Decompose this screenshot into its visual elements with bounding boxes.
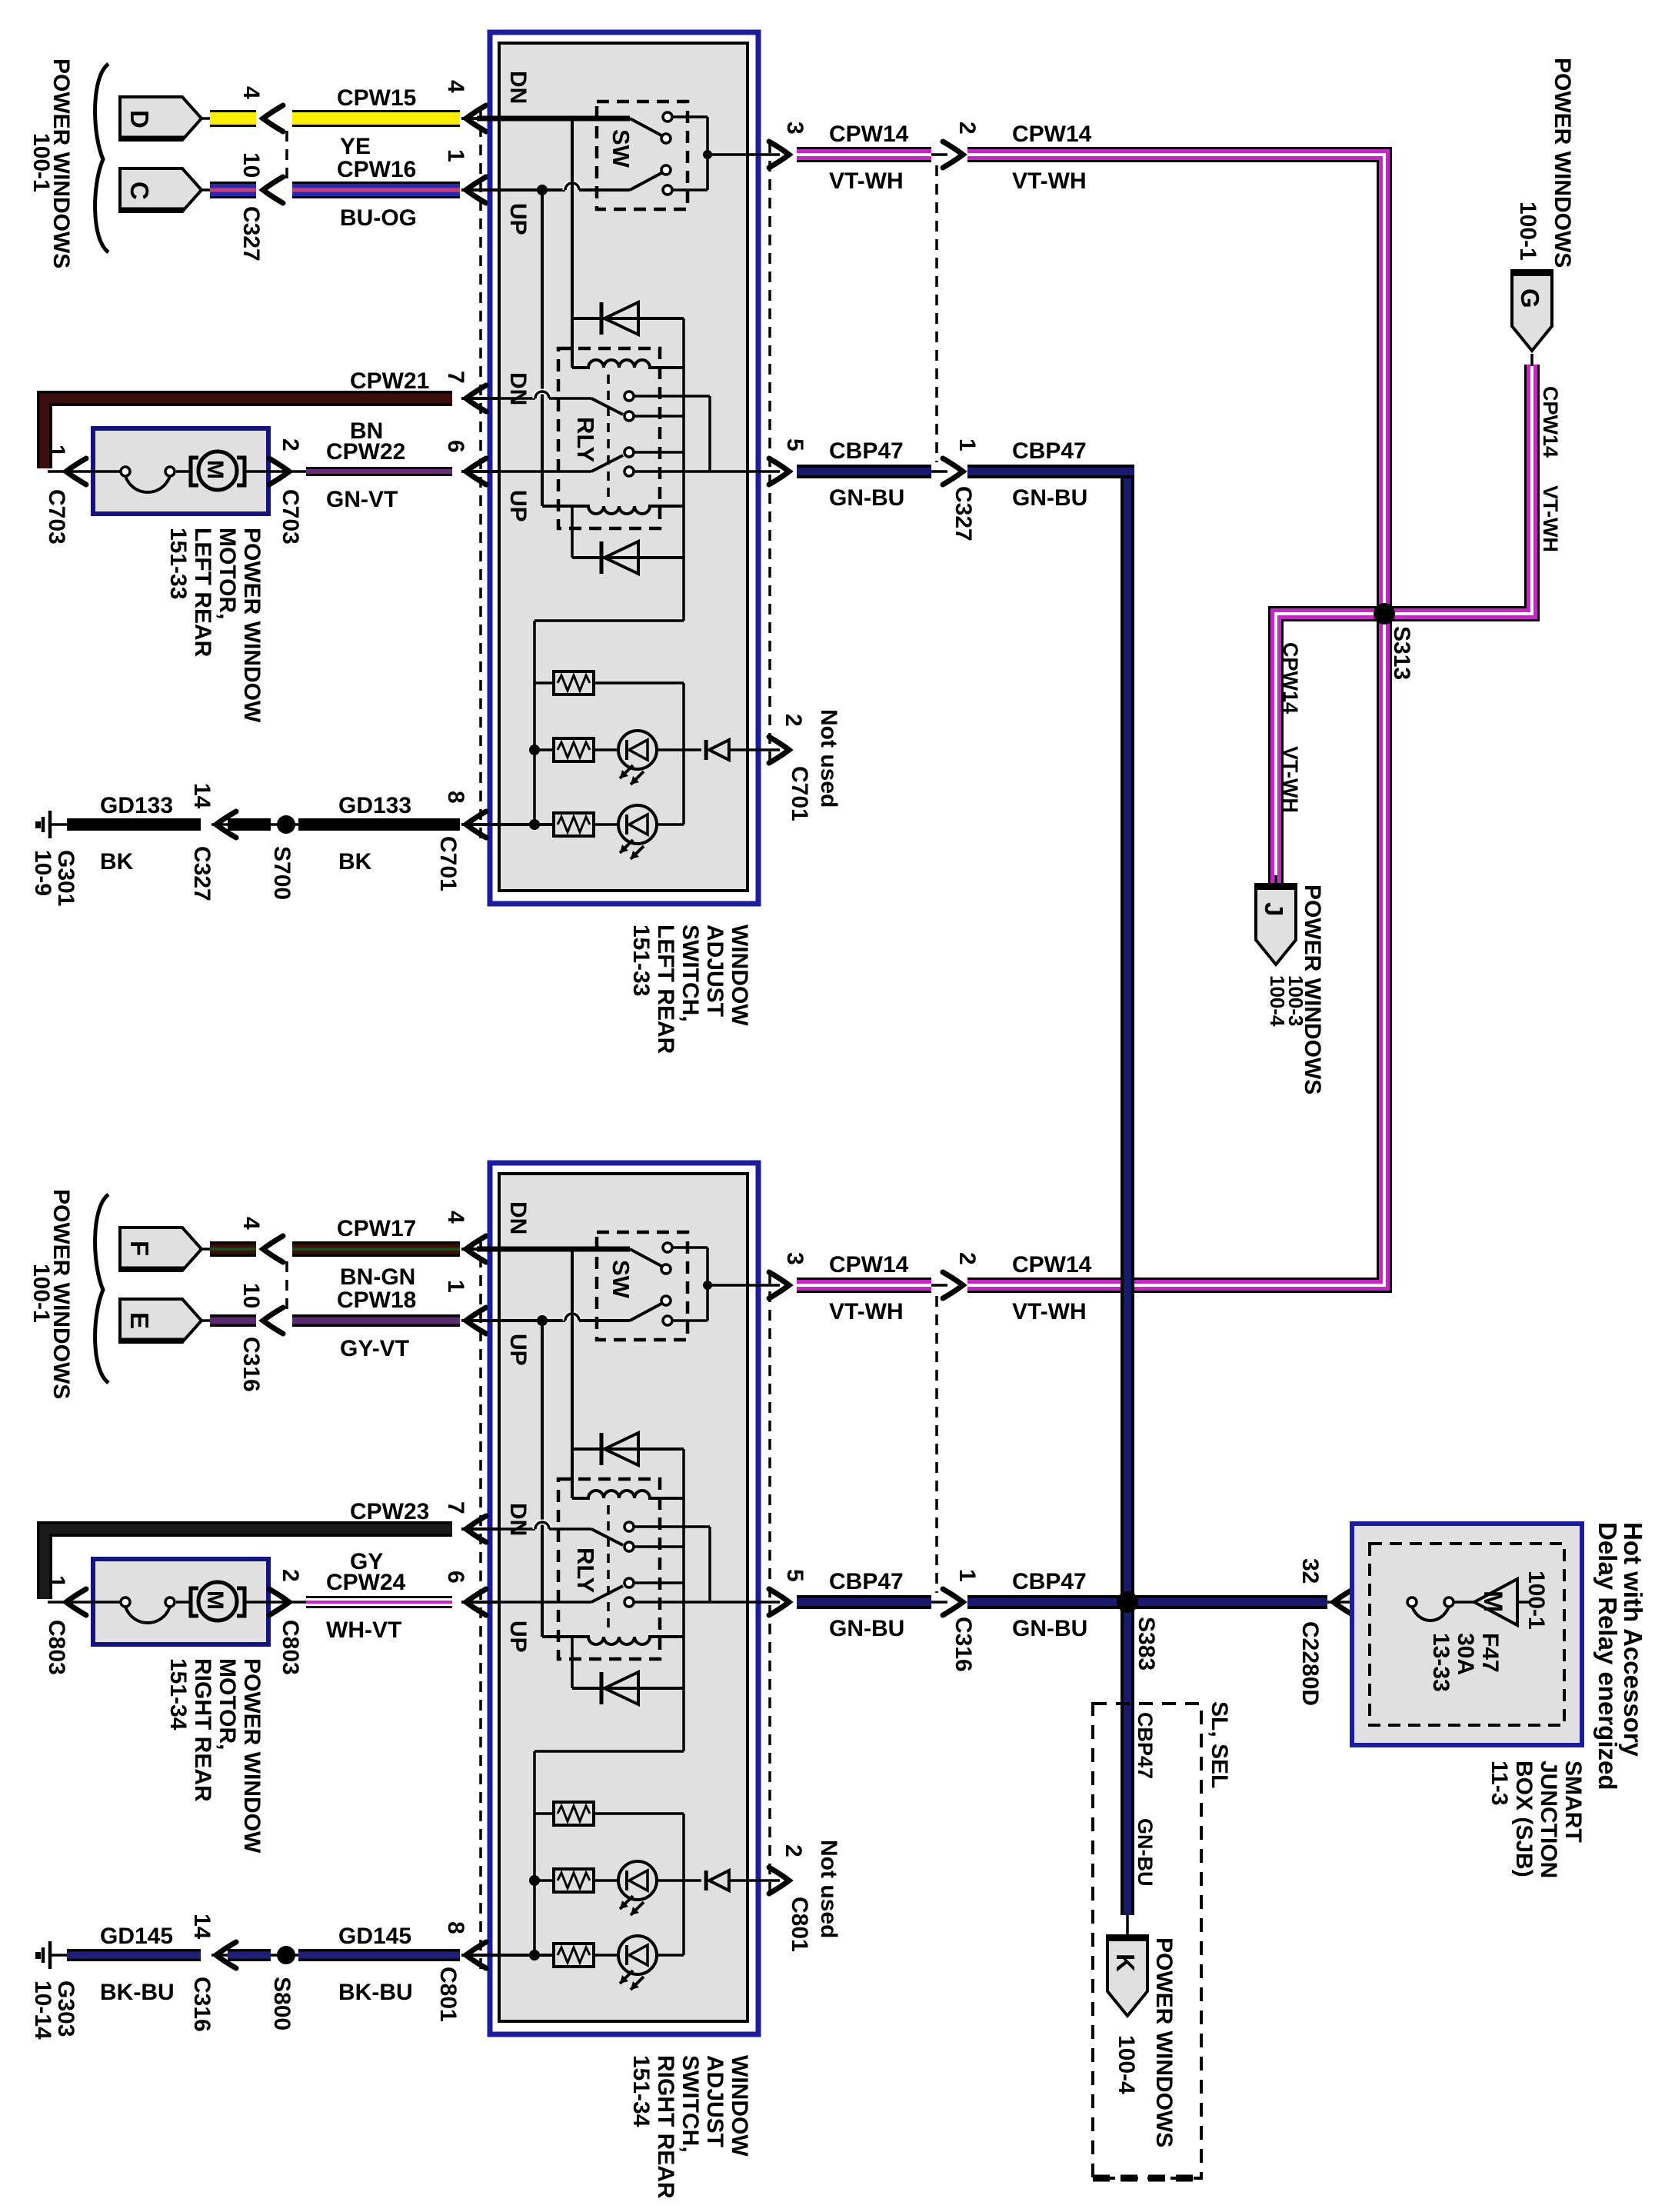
svg-text:GN-VT: GN-VT bbox=[326, 487, 398, 512]
switch SW contact UP bbox=[630, 173, 661, 190]
SJB inner dashed box bbox=[1370, 1544, 1564, 1725]
svg-text:CBP47: CBP47 bbox=[829, 438, 904, 464]
resistor R1 bbox=[534, 681, 554, 685]
svg-text:RIGHT REAR: RIGHT REAR bbox=[653, 2055, 678, 2199]
svg-text:UP: UP bbox=[505, 1621, 531, 1653]
svg-text:100-1: 100-1 bbox=[28, 1264, 54, 1323]
svg-text:CBP47: CBP47 bbox=[829, 1569, 904, 1594]
relay coil upper bbox=[572, 360, 684, 368]
wire pin 7 row bbox=[477, 397, 535, 400]
svg-text:ADJUST: ADJUST bbox=[702, 924, 728, 1017]
wire stub from F bbox=[201, 1248, 212, 1251]
arrow pin 6 at switch box bbox=[466, 1589, 486, 1615]
svg-text:BN-GN: BN-GN bbox=[340, 1264, 415, 1290]
switch SW contact DN bbox=[630, 1249, 661, 1266]
diode D2 relay lower bbox=[572, 556, 684, 559]
svg-text:LEFT REAR: LEFT REAR bbox=[190, 528, 215, 658]
connector E bbox=[120, 1299, 201, 1342]
wire GD133 short segment bbox=[228, 818, 271, 831]
arrow motor pin 1 bbox=[66, 458, 86, 485]
wire DN feed bbox=[477, 1247, 630, 1252]
resistor R2 bbox=[534, 1879, 554, 1882]
svg-text:RIGHT REAR: RIGHT REAR bbox=[190, 1658, 215, 1802]
wire pin 3 out bbox=[744, 1284, 780, 1287]
svg-text:GD133: GD133 bbox=[338, 793, 411, 818]
connector J bbox=[1274, 875, 1277, 886]
arrow pin 5 out bbox=[769, 1589, 789, 1615]
wire lamp feed bbox=[682, 558, 685, 621]
svg-text:CBP47: CBP47 bbox=[1134, 1712, 1157, 1779]
svg-text:4: 4 bbox=[238, 1217, 264, 1230]
svg-text:E: E bbox=[125, 1312, 154, 1329]
wire vertical relay link bbox=[682, 681, 685, 685]
svg-text:10-9: 10-9 bbox=[30, 850, 55, 896]
wire UP feed bbox=[477, 1319, 538, 1322]
svg-text:C703: C703 bbox=[44, 489, 69, 545]
svg-text:6: 6 bbox=[443, 1571, 468, 1584]
connector C316 dashed line right bbox=[935, 1296, 938, 1593]
fuse F47 element bbox=[1407, 1597, 1417, 1607]
arrow CPW14 crossing bbox=[943, 1272, 963, 1298]
relay contact DN bbox=[591, 1529, 623, 1545]
svg-text:10-14: 10-14 bbox=[30, 1980, 55, 2040]
svg-text:7: 7 bbox=[443, 1501, 468, 1514]
svg-text:C701: C701 bbox=[435, 836, 461, 891]
connector D bbox=[120, 97, 201, 140]
svg-text:100-1: 100-1 bbox=[1515, 202, 1540, 261]
svg-text:BU-OG: BU-OG bbox=[340, 205, 417, 231]
svg-text:C703: C703 bbox=[278, 489, 303, 545]
svg-text:CPW24: CPW24 bbox=[326, 1570, 406, 1595]
junction lamp row3 bbox=[529, 819, 540, 830]
wire CPW14 VT-WH segment A bbox=[797, 1278, 931, 1293]
connector C327 dashed line bbox=[285, 131, 288, 179]
svg-text:32: 32 bbox=[1297, 1558, 1323, 1584]
relay coil lower bbox=[542, 506, 684, 514]
wire CPW14 VT-WH trunk bbox=[967, 155, 1384, 1285]
diode D1 relay upper bbox=[572, 1447, 684, 1451]
svg-text:D: D bbox=[125, 110, 154, 128]
wire stub from D bbox=[201, 117, 212, 120]
arrow CBP47 pin 32 bbox=[1334, 1589, 1354, 1615]
switch box window adjust switch left rear inner bbox=[499, 43, 748, 891]
svg-text:SW: SW bbox=[608, 1260, 634, 1299]
arrow pin 7 at switch box bbox=[466, 385, 486, 411]
svg-text:2: 2 bbox=[278, 438, 303, 451]
junction splice S700 bbox=[277, 815, 295, 834]
LED L1 bbox=[618, 731, 657, 769]
wire GD133 BK segment 2 bbox=[298, 818, 460, 831]
svg-text:1: 1 bbox=[954, 438, 980, 451]
svg-text:4: 4 bbox=[443, 1211, 468, 1224]
connector F bbox=[120, 1228, 201, 1271]
brace top power-windows bbox=[95, 64, 108, 252]
svg-text:UP: UP bbox=[505, 490, 531, 522]
svg-text:CPW15: CPW15 bbox=[337, 85, 416, 111]
svg-text:DN: DN bbox=[505, 372, 531, 405]
arrow GD133 pin 14 bbox=[216, 811, 236, 838]
svg-text:VT-WH: VT-WH bbox=[1279, 746, 1302, 813]
svg-text:CPW14: CPW14 bbox=[829, 122, 909, 147]
wire motor pin 1 bbox=[48, 1601, 93, 1604]
wire GD133 BK segment 1 bbox=[67, 818, 201, 831]
svg-text:GN-BU: GN-BU bbox=[1012, 485, 1087, 511]
svg-text:10: 10 bbox=[238, 1283, 264, 1308]
svg-text:C2280D: C2280D bbox=[1297, 1621, 1323, 1706]
svg-text:BK: BK bbox=[338, 849, 372, 874]
connector C801 dashed line left of box bbox=[479, 1238, 482, 1970]
svg-text:CPW21: CPW21 bbox=[350, 368, 429, 394]
wire vertical relay link bbox=[682, 1812, 685, 1815]
svg-text:CPW17: CPW17 bbox=[337, 1216, 416, 1241]
wire relay contact links bbox=[634, 395, 710, 398]
svg-text:8: 8 bbox=[443, 791, 468, 804]
svg-text:UP: UP bbox=[505, 1334, 531, 1366]
relay RLY window adjust switch left rear dashed box bbox=[558, 348, 660, 528]
arrow CPW15 pin 4 left bbox=[263, 105, 283, 132]
junction splice S800 bbox=[277, 1946, 295, 1964]
svg-text:JUNCTION: JUNCTION bbox=[1536, 1761, 1561, 1878]
arrow motor pin 2 bbox=[269, 1589, 289, 1615]
svg-text:DN: DN bbox=[505, 1201, 531, 1234]
resistor R3 bbox=[499, 1954, 554, 1957]
svg-text:14: 14 bbox=[189, 783, 215, 809]
svg-text:MOTOR,: MOTOR, bbox=[215, 528, 240, 619]
svg-text:LEFT REAR: LEFT REAR bbox=[653, 924, 678, 1054]
wire vertical DN to relay coil bbox=[571, 1249, 574, 1498]
diode D3 not-used bbox=[704, 1871, 708, 1891]
svg-text:GN-BU: GN-BU bbox=[1134, 1818, 1157, 1887]
arrow pin 2 not used bbox=[769, 737, 789, 763]
svg-text:SL, SEL: SL, SEL bbox=[1207, 1701, 1232, 1788]
svg-text:GN-BU: GN-BU bbox=[829, 485, 904, 511]
wire vertical UP to relay bbox=[541, 190, 544, 506]
wire CPW21 BN bbox=[45, 398, 452, 468]
wire CPW23 GY bbox=[45, 1529, 452, 1599]
wire LED L1 out bbox=[657, 1879, 701, 1882]
svg-text:100-1: 100-1 bbox=[28, 133, 54, 192]
svg-text:CPW23: CPW23 bbox=[350, 1499, 429, 1524]
svg-text:SWITCH,: SWITCH, bbox=[678, 924, 703, 1022]
switch SW contact UP bbox=[630, 1304, 661, 1321]
wire CPW14 VT-WH segment A bbox=[797, 147, 931, 162]
svg-text:UP: UP bbox=[505, 203, 531, 235]
svg-text:J: J bbox=[1260, 902, 1288, 916]
svg-text:2: 2 bbox=[278, 1569, 303, 1582]
motor M power window motor right rear bbox=[191, 1588, 198, 1616]
svg-text:POWER WINDOW: POWER WINDOW bbox=[239, 1658, 265, 1854]
wire CPW14 S313 to J drop bbox=[1276, 614, 1392, 883]
motor power window motor right rear box bbox=[93, 1559, 268, 1644]
svg-text:C327: C327 bbox=[951, 486, 976, 541]
svg-text:WH-VT: WH-VT bbox=[326, 1617, 401, 1643]
svg-text:C801: C801 bbox=[787, 1897, 812, 1952]
junction splice S383 bbox=[1117, 1591, 1138, 1613]
wire pin 3 out bbox=[744, 153, 780, 156]
brace bottom power-windows bbox=[95, 1194, 108, 1383]
wire GD145 BK-BU segment 2 bbox=[298, 1949, 460, 1961]
wire UP feed bbox=[477, 188, 538, 192]
arrow pin 4 at switch box bbox=[466, 1236, 486, 1262]
wire GD145 BK-BU segment 1 bbox=[67, 1949, 201, 1961]
svg-text:7: 7 bbox=[443, 371, 468, 384]
svg-text:C803: C803 bbox=[278, 1620, 303, 1675]
arrow pin 3 out bbox=[769, 142, 789, 168]
diode D2 relay lower bbox=[572, 1687, 684, 1690]
relay armature dashed link bbox=[607, 1505, 610, 1631]
wire CPW17 BN-GN bbox=[292, 1241, 460, 1257]
svg-text:C327: C327 bbox=[189, 846, 215, 901]
svg-text:S800: S800 bbox=[269, 1977, 295, 2030]
svg-text:MOTOR,: MOTOR, bbox=[215, 1658, 240, 1750]
arrow pin 6 at switch box bbox=[466, 458, 486, 485]
wire LED L1 out bbox=[657, 748, 701, 751]
switch box window adjust switch right rear outer bbox=[490, 1163, 758, 2034]
wire lamp feed bbox=[682, 1688, 685, 1751]
svg-text:CPW16: CPW16 bbox=[337, 157, 416, 182]
svg-text:3: 3 bbox=[782, 1252, 808, 1265]
wire SW outputs bbox=[672, 1246, 708, 1249]
svg-text:VT-WH: VT-WH bbox=[829, 1299, 904, 1324]
svg-text:VT-WH: VT-WH bbox=[1539, 485, 1562, 552]
wire pin 7 row bbox=[477, 1527, 535, 1531]
junction UP feed to relay bbox=[537, 1315, 548, 1326]
svg-text:GN-BU: GN-BU bbox=[1012, 1616, 1087, 1641]
arrow motor pin 1 bbox=[66, 1589, 86, 1615]
circuit breaker in motor bbox=[93, 470, 120, 473]
svg-text:CPW14: CPW14 bbox=[1012, 122, 1092, 147]
arrow pin 1 at switch box bbox=[466, 177, 486, 203]
svg-text:151-34: 151-34 bbox=[628, 2055, 654, 2127]
svg-text:C803: C803 bbox=[44, 1620, 69, 1675]
svg-text:1: 1 bbox=[443, 1280, 468, 1293]
svg-text:30A: 30A bbox=[1453, 1633, 1478, 1675]
connector C327 dashed line right bbox=[935, 165, 938, 462]
svg-text:BOX (SJB): BOX (SJB) bbox=[1511, 1761, 1537, 1877]
svg-text:100-4: 100-4 bbox=[1114, 2035, 1139, 2094]
connector C701 dashed line right of box bbox=[768, 142, 771, 763]
arrow CPW17 pin 4 left bbox=[263, 1236, 283, 1262]
wire CPW14 S313 to G riser bbox=[1377, 365, 1532, 614]
wire CBP47 GN-BU S383 to SJB bbox=[1127, 1595, 1327, 1609]
svg-text:1: 1 bbox=[443, 149, 468, 162]
wire pin 5 out bbox=[710, 470, 780, 473]
wire LED L2 out bbox=[657, 823, 684, 826]
fuse F47 triangle M bbox=[1474, 1579, 1517, 1625]
svg-text:GD133: GD133 bbox=[100, 793, 173, 818]
svg-text:M: M bbox=[202, 460, 228, 479]
svg-text:CPW14: CPW14 bbox=[1279, 642, 1302, 714]
svg-text:VT-WH: VT-WH bbox=[1012, 1299, 1087, 1324]
svg-text:4: 4 bbox=[443, 80, 468, 93]
svg-text:151-33: 151-33 bbox=[165, 528, 191, 599]
wire GD145 short segment bbox=[228, 1949, 271, 1961]
wire CBP47 GN-BU segment A bbox=[797, 465, 931, 478]
arrow CPW14 crossing bbox=[943, 142, 963, 168]
wire CPW22 GN-VT bbox=[306, 467, 452, 476]
wire stub from E bbox=[201, 1319, 212, 1322]
resistor R2 bbox=[534, 748, 554, 751]
svg-text:CPW18: CPW18 bbox=[337, 1288, 416, 1313]
svg-text:2: 2 bbox=[954, 1252, 980, 1265]
smart junction box SJB bbox=[1352, 1524, 1582, 1745]
relay coil lower bbox=[542, 1637, 684, 1644]
arrow pin 2 not used bbox=[769, 1867, 789, 1894]
arrow GD145 pin 14 bbox=[216, 1942, 236, 1968]
connector G bbox=[1530, 354, 1533, 366]
svg-text:151-33: 151-33 bbox=[628, 924, 654, 996]
svg-text:WINDOW: WINDOW bbox=[727, 924, 752, 1026]
svg-text:POWER WINDOWS: POWER WINDOWS bbox=[1151, 1937, 1177, 2147]
svg-text:G: G bbox=[1516, 288, 1544, 308]
svg-text:5: 5 bbox=[782, 1569, 808, 1582]
motor power window motor left rear box bbox=[93, 428, 268, 514]
wire pin 6 row bbox=[477, 470, 591, 473]
svg-text:Hot with Accessory: Hot with Accessory bbox=[1619, 1522, 1647, 1757]
wire relay contact links bbox=[634, 1525, 710, 1528]
svg-text:POWER WINDOW: POWER WINDOW bbox=[239, 528, 265, 723]
svg-text:CBP47: CBP47 bbox=[1012, 438, 1087, 464]
svg-text:1: 1 bbox=[44, 445, 69, 458]
arrow motor pin 2 bbox=[269, 458, 289, 485]
svg-text:VT-WH: VT-WH bbox=[829, 168, 904, 194]
arrow CPW18 pin 10 left bbox=[263, 1308, 283, 1334]
svg-text:C: C bbox=[125, 182, 154, 200]
diode D1 relay upper bbox=[572, 317, 684, 320]
junction lamp row2 bbox=[529, 1875, 540, 1886]
svg-text:K: K bbox=[1111, 1954, 1140, 1972]
wire CPW15 YE bbox=[292, 110, 460, 127]
svg-text:M: M bbox=[202, 1591, 228, 1610]
wire motor pin 2 bbox=[268, 1601, 306, 1604]
svg-text:4: 4 bbox=[238, 86, 264, 99]
relay RLY window adjust switch right rear dashed box bbox=[558, 1479, 660, 1659]
svg-text:G301: G301 bbox=[53, 850, 78, 906]
svg-text:CPW14: CPW14 bbox=[1012, 1252, 1092, 1278]
svg-text:F47: F47 bbox=[1477, 1633, 1503, 1673]
relay armature dashed link bbox=[607, 375, 610, 500]
svg-text:G303: G303 bbox=[53, 1980, 78, 2037]
svg-text:POWER WINDOWS: POWER WINDOWS bbox=[1550, 58, 1575, 268]
connector K bbox=[1126, 1915, 1129, 1938]
arrow pin 1 at switch box bbox=[466, 1308, 486, 1334]
svg-text:C316: C316 bbox=[951, 1617, 976, 1672]
arrow pin 4 at switch box bbox=[466, 105, 486, 132]
switch box window adjust switch right rear inner bbox=[499, 1174, 748, 2021]
svg-text:100-1: 100-1 bbox=[1523, 1571, 1549, 1630]
svg-text:CPW22: CPW22 bbox=[326, 439, 405, 465]
svg-text:F: F bbox=[125, 1241, 154, 1256]
svg-text:DN: DN bbox=[505, 1503, 531, 1536]
svg-text:VT-WH: VT-WH bbox=[1012, 168, 1087, 194]
svg-text:3: 3 bbox=[782, 122, 808, 135]
connector C701 dashed line left of box bbox=[479, 108, 482, 840]
svg-text:WINDOW: WINDOW bbox=[727, 2055, 752, 2157]
wire LED L2 out bbox=[657, 1954, 684, 1957]
wire CBP47 GN-BU vertical trunk bbox=[1121, 465, 1134, 1915]
svg-text:6: 6 bbox=[443, 440, 468, 453]
wire pin 6 row bbox=[477, 1601, 591, 1604]
wire motor pin 2 bbox=[268, 470, 306, 473]
junction splice S313 bbox=[1374, 603, 1395, 625]
svg-text:2: 2 bbox=[781, 714, 806, 727]
SL SEL dashed box bbox=[1093, 1704, 1201, 2178]
svg-text:SW: SW bbox=[608, 129, 634, 168]
svg-text:14: 14 bbox=[189, 1914, 215, 1940]
svg-text:1: 1 bbox=[44, 1575, 69, 1588]
svg-text:8: 8 bbox=[443, 1921, 468, 1934]
ground G301 bbox=[48, 811, 52, 838]
svg-text:GD145: GD145 bbox=[100, 1924, 173, 1949]
ground G303 bbox=[48, 1941, 52, 1969]
junction lamp row3 bbox=[529, 1950, 540, 1960]
svg-text:C801: C801 bbox=[435, 1967, 461, 2022]
wire relay right vertical bbox=[682, 318, 685, 558]
wire pin 5 out bbox=[710, 1601, 780, 1604]
relay coil upper bbox=[572, 1491, 684, 1498]
wire motor pin 1 bbox=[48, 470, 93, 473]
svg-text:YE: YE bbox=[340, 134, 371, 159]
resistor R1 bbox=[534, 1812, 554, 1815]
wire CBP47 GN-BU row into S383 bbox=[967, 1595, 1127, 1609]
switch box window adjust switch left rear outer bbox=[490, 32, 758, 904]
junction UP feed to relay bbox=[537, 185, 548, 195]
arrow pin 5 out bbox=[769, 458, 789, 485]
arrow pin 7 at switch box bbox=[466, 1516, 486, 1542]
LED L2 bbox=[618, 805, 657, 844]
switch SW window adjust switch left rear dashed box bbox=[597, 102, 688, 209]
svg-text:M: M bbox=[1478, 1591, 1507, 1612]
svg-text:1: 1 bbox=[954, 1569, 980, 1582]
switch SW window adjust switch right rear dashed box bbox=[597, 1232, 688, 1340]
svg-text:GY-VT: GY-VT bbox=[340, 1336, 409, 1361]
svg-text:C701: C701 bbox=[787, 766, 812, 821]
wire CPW18 GY-VT bbox=[292, 1314, 460, 1327]
svg-text:GD145: GD145 bbox=[338, 1924, 411, 1949]
relay contact UP bbox=[591, 455, 623, 471]
svg-text:S700: S700 bbox=[269, 846, 295, 900]
svg-text:BK: BK bbox=[100, 849, 134, 874]
resistor R3 bbox=[499, 823, 554, 826]
svg-text:CPW14: CPW14 bbox=[1539, 386, 1562, 458]
svg-text:11-3: 11-3 bbox=[1487, 1761, 1512, 1805]
svg-text:C327: C327 bbox=[238, 206, 264, 262]
wire stub from C bbox=[201, 188, 212, 192]
connector C bbox=[120, 168, 201, 212]
svg-text:100-4: 100-4 bbox=[1266, 975, 1289, 1027]
svg-text:ADJUST: ADJUST bbox=[702, 2055, 728, 2147]
svg-text:S383: S383 bbox=[1134, 1617, 1159, 1671]
connector C801 dashed line right of box bbox=[768, 1273, 771, 1894]
wire CBP47 GN-BU corner top bbox=[967, 465, 1134, 478]
arrow pin 8 at switch box bbox=[466, 1942, 486, 1968]
svg-text:13-33: 13-33 bbox=[1428, 1633, 1454, 1692]
svg-text:2: 2 bbox=[781, 1844, 806, 1857]
arrow CPW16 pin 10 left bbox=[263, 177, 283, 203]
wire CPW24 WH-VT bbox=[306, 1596, 452, 1608]
motor M power window motor left rear bbox=[191, 458, 198, 485]
wire relay right vertical bbox=[682, 1449, 685, 1688]
svg-text:Not used: Not used bbox=[816, 709, 841, 808]
svg-text:GN-BU: GN-BU bbox=[829, 1616, 904, 1641]
svg-text:Not used: Not used bbox=[816, 1840, 841, 1938]
svg-text:5: 5 bbox=[782, 438, 808, 451]
arrow pin 8 at switch box bbox=[466, 811, 486, 838]
wire CPW16 BU-OG bbox=[292, 182, 460, 198]
svg-text:RLY: RLY bbox=[572, 1547, 599, 1593]
diode D3 not-used bbox=[704, 740, 708, 760]
svg-text:BK-BU: BK-BU bbox=[338, 1980, 413, 2005]
